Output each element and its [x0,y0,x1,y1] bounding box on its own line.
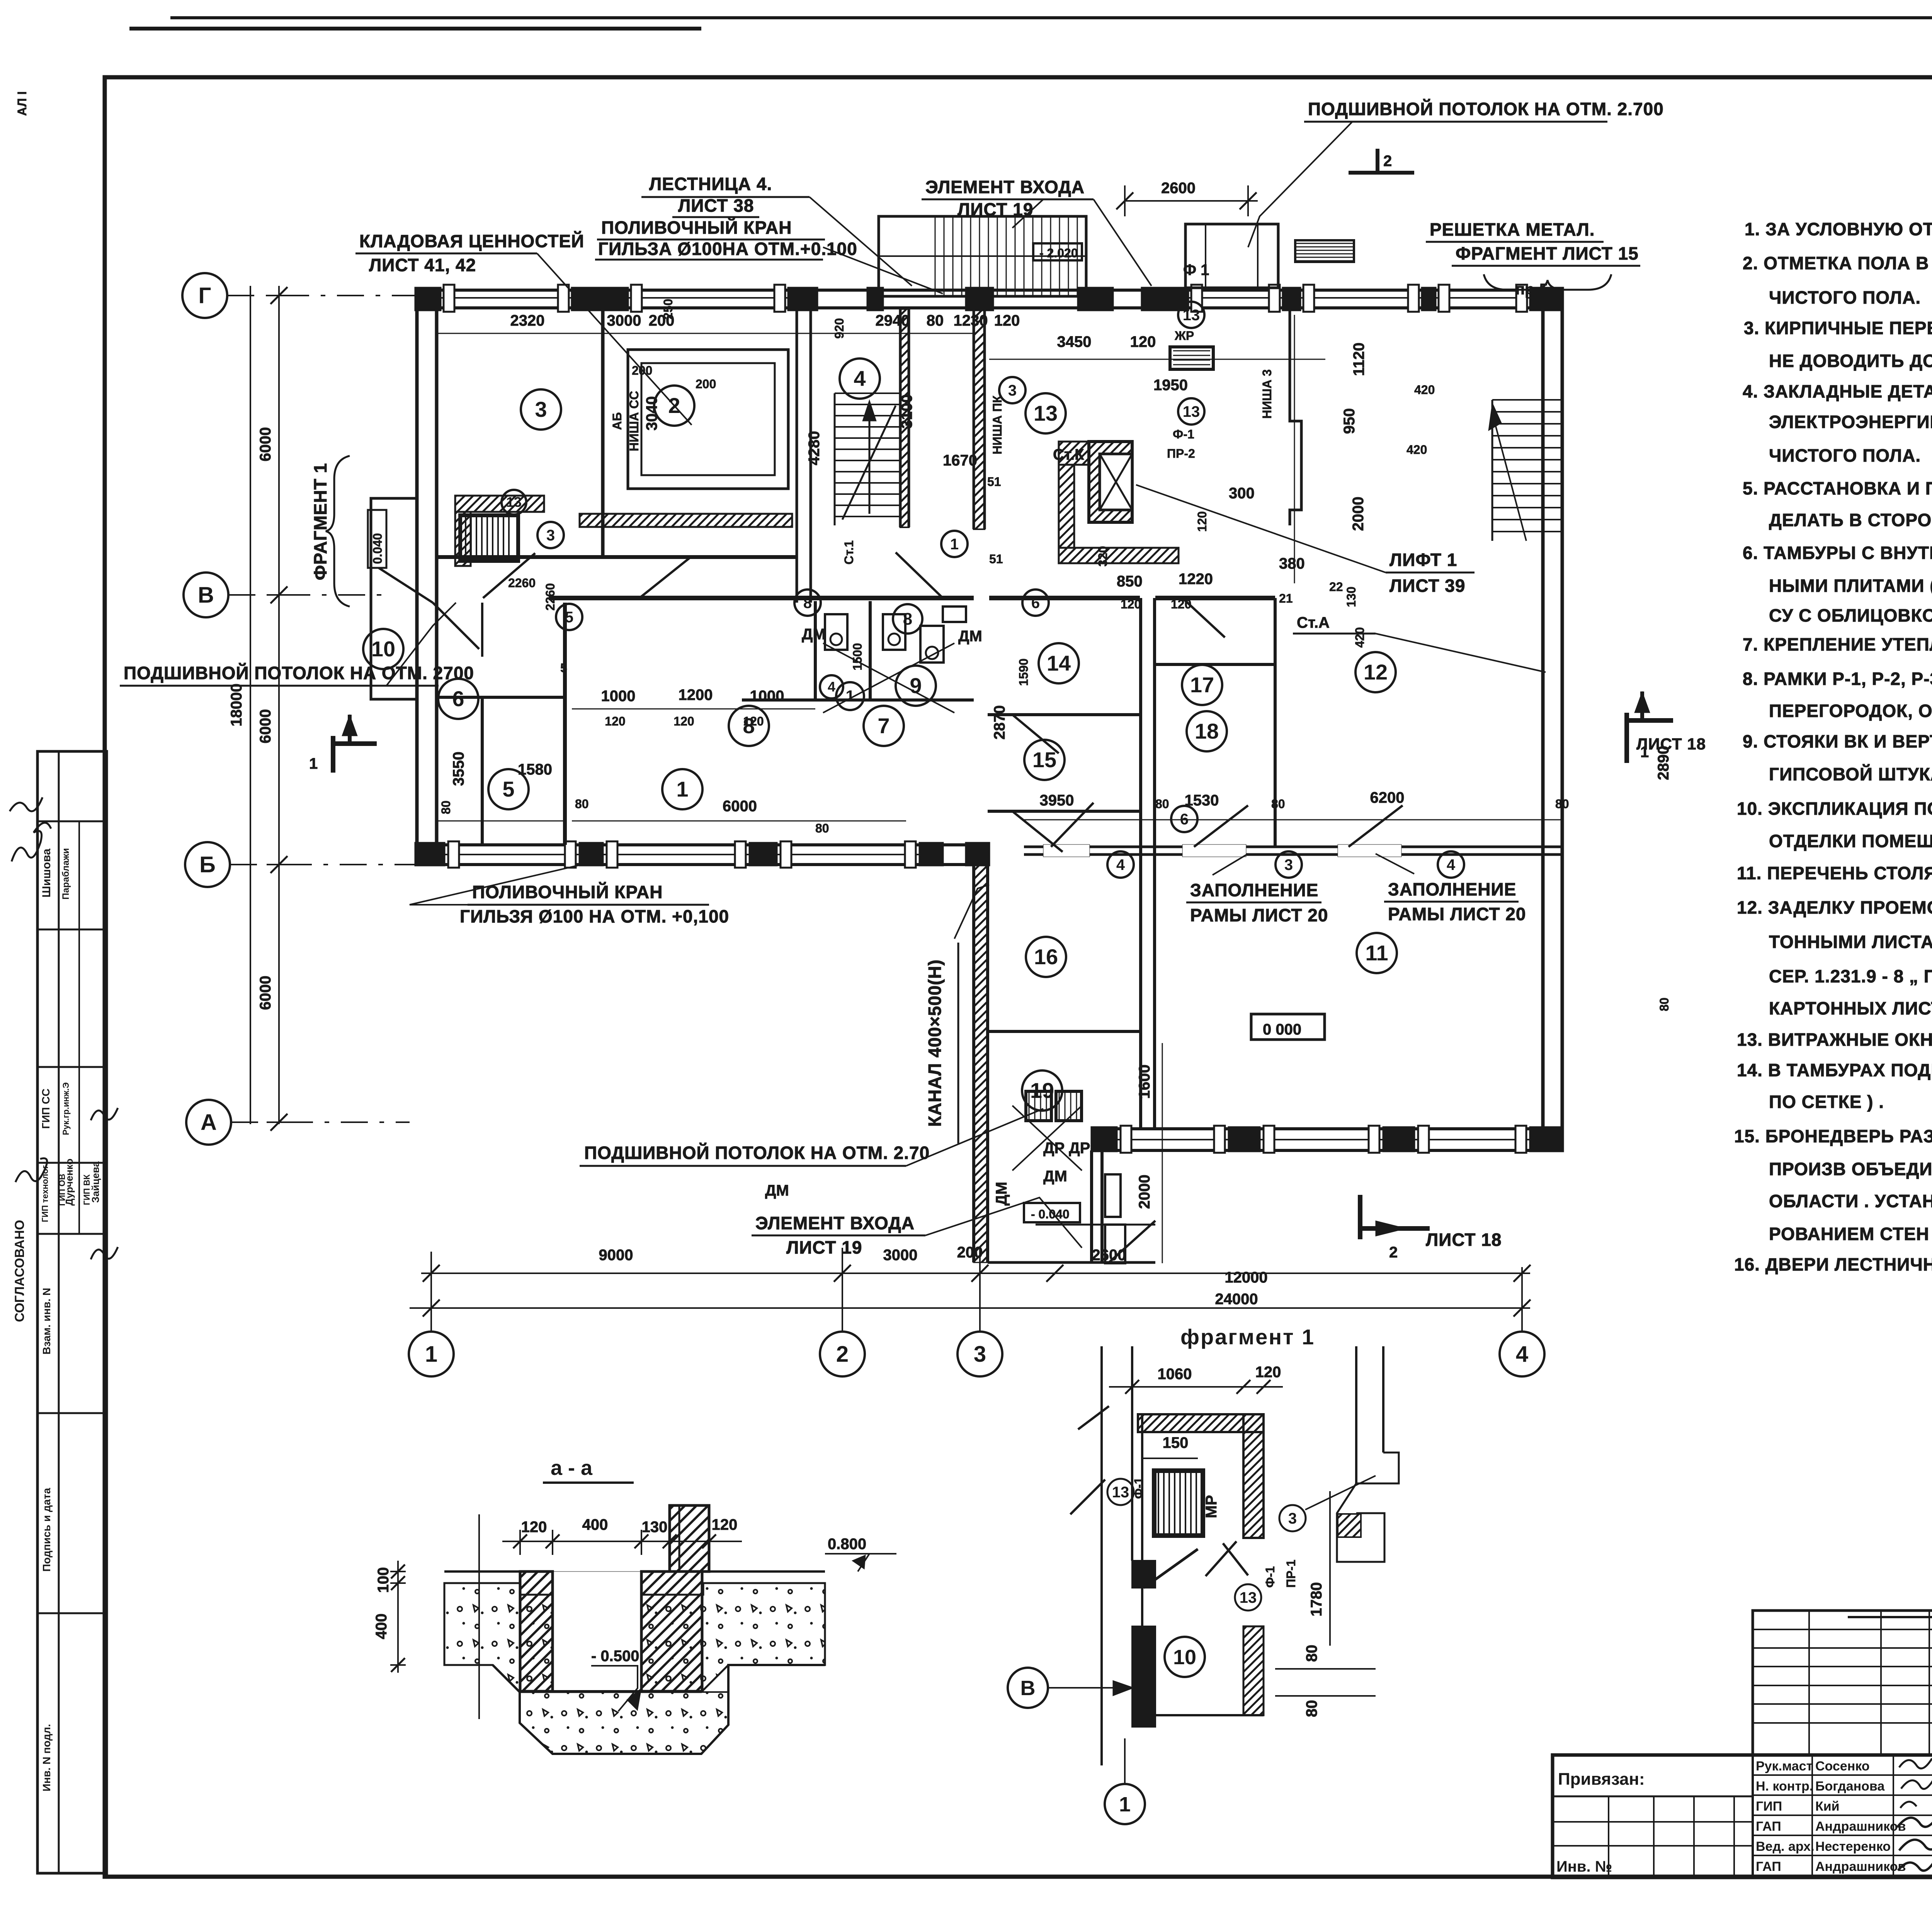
svg-text:51: 51 [989,552,1003,566]
svg-text:1: 1 [950,536,959,553]
svg-text:6000: 6000 [257,427,274,462]
svg-text:рамы лист 20: рамы лист 20 [1388,904,1526,924]
left vertical dimension chains [278,286,280,1124]
top wall piers [415,288,440,310]
svg-text:рованием стен кладовой: рованием стен кладовой ценностей . [1769,1224,1932,1244]
svg-text:8: 8 [803,595,812,612]
room circle 10 [363,629,403,669]
svg-text:ДР ДР: ДР ДР [1043,1140,1090,1157]
svg-text:сер. 1.231.9 - 8 „ Перегородк: сер. 1.231.9 - 8 „ Перегородки поэлемент… [1769,966,1932,986]
dim line room 12 interior [1294,315,1295,583]
svg-text:80: 80 [815,821,829,835]
fragment left wall double [1100,1346,1103,1765]
svg-text:лист 41, 42: лист 41, 42 [369,255,476,275]
room circle 13 [502,490,526,515]
svg-text:рамы лист 20: рамы лист 20 [1190,905,1328,925]
svg-text:4: 4 [1447,856,1456,873]
svg-text:7: 7 [878,714,889,738]
room circle 19 [1022,1070,1062,1111]
svg-text:гильзя Ø100 на отм. +0,100: гильзя Ø100 на отм. +0,100 [460,906,729,926]
left outer wall outer line [415,288,419,865]
fragment right wall detail [1355,1346,1357,1483]
title block top extension lines [1848,1616,1932,1618]
room circle 3 [537,522,564,548]
svg-text:11. Перечень столярных эле: 11. Перечень столярных элементов на лист… [1737,863,1932,883]
svg-text:3040: 3040 [643,396,660,431]
svg-text:Богданова: Богданова [1815,1779,1885,1794]
svg-text:1: 1 [309,755,318,772]
svg-text:3100: 3100 [898,394,915,429]
svg-text:10: 10 [371,637,395,661]
svg-text:200: 200 [696,377,716,391]
section mark 2 bottom with arrow [1358,1195,1362,1239]
section a-a floor slab lines [444,1570,520,1573]
svg-text:ГИП СС: ГИП СС [40,1089,52,1129]
svg-text:1: 1 [845,687,854,705]
svg-text:3: 3 [1284,856,1293,873]
svg-text:1230: 1230 [954,312,988,329]
room circle 13 [1178,398,1204,425]
left outer wall inner line [435,288,439,865]
svg-text:13: 13 [1034,401,1058,425]
room circle 2 [654,386,694,426]
stair arrow [869,409,871,514]
svg-text:3950: 3950 [1040,792,1074,809]
room1 dim line [572,821,906,822]
svg-text:Дурченко: Дурченко [63,1159,75,1206]
wc fixtures [825,614,847,650]
svg-text:6000: 6000 [257,976,274,1010]
second entrance box right top [1185,224,1278,288]
svg-text:420: 420 [1406,443,1427,457]
svg-text:ДМ: ДМ [802,626,826,643]
svg-text:АБ: АБ [610,412,624,430]
room circle 11 [1357,933,1397,973]
svg-text:120: 120 [605,714,625,728]
svg-text:Инв. №: Инв. № [1556,1858,1612,1875]
svg-text:области . Устанавливается: области . Устанавливается в проектное по… [1769,1191,1932,1211]
DR grilles bottom tambour [1026,1091,1051,1121]
room circle 3 [1276,851,1302,878]
svg-text:Сосенко: Сосенко [1815,1759,1870,1774]
room circle 3 [999,377,1026,403]
room circle 1 [836,682,864,710]
svg-text:250: 250 [661,299,675,319]
bottom axis stems [430,1252,432,1332]
elevation box -0.040 rotated left [368,510,386,568]
svg-text:заполнение: заполнение [1388,879,1516,899]
lift lobby hatched walls [1059,442,1089,465]
room circle 4 [840,358,880,399]
svg-text:Рук.маст: Рук.маст [1756,1759,1813,1774]
svg-text:5: 5 [502,777,514,801]
lift shaft [1089,442,1132,522]
svg-text:6: 6 [1180,811,1189,828]
svg-text:420: 420 [1353,627,1367,647]
svg-text:14. В тамбурах подшивные: 14. В тамбурах подшивные потолки на отм.… [1737,1060,1932,1080]
svg-text:Инв. N подл.: Инв. N подл. [41,1724,53,1792]
fragment door leaves [1078,1406,1109,1429]
svg-text:80: 80 [1303,1645,1320,1662]
svg-text:4: 4 [1116,856,1125,873]
wall under room 12 y2197 [1024,846,1563,848]
section mark 1 right with arrow [1624,713,1629,763]
fragment room circle 10 [1165,1637,1205,1677]
trench right wall hatched [641,1572,702,1691]
partitions in stem rooms 14/15/16/19 [988,713,1141,716]
room circle 6 [1171,806,1197,832]
room circle 13 [1178,302,1204,328]
room circle 4 [1107,851,1134,878]
svg-text:Ст.1: Ст.1 [842,540,856,565]
svg-text:перегородок, огрунтовать за: перегородок, огрунтовать за 2 раза и окр… [1769,701,1932,721]
svg-text:4: 4 [828,679,835,695]
svg-text:15: 15 [1032,748,1056,772]
svg-text:9: 9 [910,673,922,698]
svg-text:8: 8 [743,714,755,738]
fragment circles 13 [1107,1479,1134,1505]
svg-text:5: 5 [565,609,573,626]
svg-text:гипсовой штукатуркой по дере: гипсовой штукатуркой по деревянному карк… [1769,764,1932,784]
niche3 jog wall [1290,309,1301,525]
svg-text:кладовая ценностей: кладовая ценностей [359,231,584,251]
svg-text:2320: 2320 [510,312,545,329]
svg-text:2940: 2940 [876,312,910,329]
svg-text:24000: 24000 [1215,1291,1258,1308]
svg-text:5: 5 [560,661,567,675]
svg-text:НИША СС: НИША СС [627,391,641,451]
svg-text:Вед. арх.: Вед. арх. [1756,1839,1815,1854]
svg-text:пр-5: пр-5 [1515,281,1548,298]
svg-text:- 0.500: - 0.500 [591,1648,639,1665]
svg-text:80: 80 [575,797,589,811]
corridor wall top y1548 [549,596,974,600]
room circle 7 [864,706,904,746]
section mark 1 left [331,736,335,773]
svg-text:фрагмент 1: фрагмент 1 [310,463,330,580]
svg-text:ЖР: ЖР [1174,329,1194,343]
rooms 5/6 partitions [437,696,565,699]
elevation box 0.000 room 11 [1251,1014,1325,1040]
partitions rooms 17/18 [1155,663,1275,666]
svg-text:3: 3 [974,1342,986,1367]
svg-text:6000: 6000 [723,798,757,815]
svg-text:лист 18: лист 18 [1426,1230,1502,1250]
room circle 3 [521,389,561,430]
svg-text:120: 120 [521,1519,547,1536]
svg-text:0 000: 0 000 [1263,1021,1301,1038]
svg-text:по сетке ) .: по сетке ) . [1769,1092,1884,1112]
wc partitions rooms 7/8 [814,601,817,700]
svg-text:950: 950 [1341,408,1358,434]
svg-text:9000: 9000 [599,1247,633,1264]
svg-text:3450: 3450 [1057,333,1092,350]
svg-text:заполнение: заполнение [1190,880,1318,900]
svg-text:1: 1 [425,1342,437,1367]
svg-text:11: 11 [1365,941,1388,965]
signatures squiggles [1899,1758,1932,1808]
svg-text:поливочный кран: поливочный кран [472,882,663,902]
svg-text:2260: 2260 [543,583,557,610]
svg-text:А: А [201,1110,217,1135]
svg-text:420: 420 [1414,383,1435,397]
svg-text:2: 2 [1389,1244,1398,1261]
svg-text:ПР-1: ПР-1 [1284,1560,1298,1588]
svg-text:НИША ПК: НИША ПК [990,395,1004,454]
svg-text:Ст.К: Ст.К [1053,446,1084,463]
canal stem walls [972,865,975,1262]
wall above hatched [670,1505,709,1572]
room circle 13 [1026,393,1066,433]
svg-text:6. Тамбуры с внутренней ст: 6. Тамбуры с внутренней стороны утеплить… [1743,543,1932,563]
svg-text:80: 80 [1657,997,1671,1011]
top entrance stair box [879,216,1086,296]
room circle 12 [1355,652,1396,692]
svg-text:отделки помещений на лист: отделки помещений на листах 3, 4, 5. [1769,831,1932,851]
room circle 4 [1438,851,1464,878]
svg-text:Ф 1: Ф 1 [1183,262,1209,279]
concrete floor band stipple [444,1583,825,1692]
section top dim line [502,1541,742,1542]
svg-text:1590: 1590 [1017,658,1031,686]
niche walls room 2 [628,350,788,489]
svg-text:Кий: Кий [1815,1799,1840,1814]
svg-text:Ф-1: Ф-1 [1263,1566,1277,1588]
svg-text:1120: 1120 [1350,343,1367,376]
svg-text:120: 120 [1130,333,1156,350]
svg-text:2870: 2870 [991,705,1008,740]
svg-text:13: 13 [1183,403,1200,420]
interior partition rooms 3|2 [601,309,605,558]
svg-text:13: 13 [1112,1484,1129,1501]
bottom dimension lines [421,1273,1530,1274]
svg-text:6: 6 [452,686,464,711]
axis circle 1 [409,1332,454,1376]
svg-text:а - а: а - а [551,1456,593,1480]
svg-text:чистого пола.: чистого пола. [1769,445,1921,466]
door gaps white in y2197 wall [1182,844,1246,857]
svg-text:80: 80 [927,312,944,329]
svg-text:элемент входа: элемент входа [755,1213,915,1233]
svg-text:не доводить до плит перекрыт: не доводить до плит перекрытия на 20 мм [1769,351,1932,371]
svg-text:3000: 3000 [883,1247,918,1264]
svg-text:Андрашников: Андрашников [1815,1859,1906,1874]
svg-text:3: 3 [1008,382,1017,399]
fragment dims top [1109,1386,1283,1388]
svg-text:10. Экспликация помещений: 10. Экспликация помещений и их площади д… [1737,799,1932,819]
horizontal axis dash lines [227,295,417,296]
svg-text:В: В [198,583,214,608]
svg-text:лифт 1: лифт 1 [1389,550,1457,570]
svg-text:лист 19: лист 19 [786,1237,862,1257]
svg-text:0.800: 0.800 [828,1536,866,1553]
svg-text:120: 120 [1195,511,1209,532]
svg-text:НИША 3: НИША 3 [1260,369,1274,419]
svg-text:13: 13 [1240,1589,1257,1606]
trench left wall hatched [520,1572,553,1691]
room circle 5 [556,604,582,630]
svg-text:ДМ: ДМ [765,1182,789,1199]
svg-text:1: 1 [1119,1793,1131,1816]
svg-text:3: 3 [546,527,555,544]
left vertical stamp table [37,751,107,1873]
svg-text:2: 2 [1383,153,1392,170]
axis circle В [184,573,228,617]
DM leader crosses [823,643,954,713]
axis circle Г [182,273,227,318]
axis circle 4 [1500,1332,1544,1376]
svg-text:1220: 1220 [1179,571,1213,588]
room circle 8 [794,590,821,616]
svg-text:3000: 3000 [607,312,641,329]
svg-text:8. Рамки Р-1, Р-2, Р-3 устан: 8. Рамки Р-1, Р-2, Р-3 устанавливать одн… [1743,669,1932,689]
svg-text:элемент входа: элемент входа [925,177,1085,197]
right outer wall outer line [1541,288,1545,1151]
svg-text:Зайцева: Зайцева [90,1161,101,1203]
svg-text:130: 130 [1344,586,1358,607]
room circle 8 [893,604,922,634]
top outer wall outer line [415,289,1563,292]
svg-text:120: 120 [1121,597,1141,611]
fragment dims 80 80 [1275,1668,1376,1670]
svg-text:1670: 1670 [943,452,977,469]
svg-text:300: 300 [1229,485,1255,502]
svg-text:су с облицовкой по серии: су с облицовкой по серии 1. 231.9 - 8 вы… [1769,605,1932,625]
svg-text:Рук.гр.инж.Э: Рук.гр.инж.Э [61,1082,71,1135]
svg-text:4: 4 [1516,1342,1528,1367]
privyazan block left [1551,1755,1554,1877]
svg-text:10: 10 [1173,1646,1196,1669]
trench pit concrete [493,1665,825,1754]
svg-text:1. За условную отметку 0.000: 1. За условную отметку 0.000 принята отм… [1745,219,1932,239]
svg-text:13: 13 [506,494,522,510]
svg-text:4280: 4280 [806,431,823,466]
interior partition rooms 5|1 [563,603,567,845]
right outer wall inner line [1561,288,1564,1151]
room circle 1 [941,531,968,557]
svg-text:2: 2 [668,393,680,418]
room circle 6 [438,679,478,719]
svg-text:1200: 1200 [679,686,713,703]
fragment bottom wall [1142,1714,1264,1716]
room circle 4 [820,675,843,698]
svg-text:5. Расстановка и привязка т: 5. Расстановка и привязка трапов дана на… [1743,478,1932,498]
svg-text:решетка метал.: решетка метал. [1430,219,1595,240]
room circle 18 [1187,711,1227,751]
svg-text:0.040: 0.040 [371,533,384,564]
svg-text:1600: 1600 [1136,1065,1153,1099]
room circle 9 [896,666,936,706]
svg-text:фрагмент 1: фрагмент 1 [1180,1325,1315,1349]
svg-text:Н. контр.: Н. контр. [1756,1779,1813,1794]
svg-text:1000: 1000 [601,688,636,705]
top outer wall inner line [415,306,1563,309]
svg-text:Ст.А: Ст.А [1297,614,1330,631]
wall under rooms 3/2 y1440 [437,555,797,559]
svg-text:Б: Б [199,852,216,877]
stair diagonal arrow [842,406,896,520]
svg-text:14: 14 [1047,651,1071,675]
svg-text:2000: 2000 [1136,1175,1153,1209]
svg-text:тонными листами ( ГКЛ ): тонными листами ( ГКЛ ) на деревянном ка… [1769,932,1932,952]
svg-text:19: 19 [1030,1078,1054,1103]
wall axis3 double [973,303,975,529]
svg-text:В: В [1020,1677,1036,1700]
title block upper small table [1753,1611,1932,1755]
svg-text:4. Закладные детали в полу: 4. Закладные детали в полу для крепления… [1743,381,1932,401]
svg-text:3: 3 [1288,1510,1297,1527]
svg-text:Шишова: Шишова [40,848,53,897]
canal hatch [974,865,988,1262]
svg-text:МР: МР [1203,1495,1220,1518]
svg-text:фрагмент лист 15: фрагмент лист 15 [1456,243,1639,263]
fragment axis circle V [1008,1668,1048,1708]
svg-text:920: 920 [832,318,846,338]
svg-text:320: 320 [1096,546,1110,566]
svg-text:произв объединение „ Прикарп: произв объединение „ Прикарпатье" г. Кол… [1769,1159,1932,1179]
svg-text:лестница 4.: лестница 4. [649,174,772,194]
room circle 5 [488,769,529,809]
svg-text:400: 400 [582,1516,608,1533]
svg-text:электроэнергии и канализации: электроэнергии и канализации к оборудова… [1769,412,1932,432]
svg-text:АЛ I: АЛ I [15,91,29,116]
svg-text:СОГЛАСОВАНО: СОГЛАСОВАНО [12,1220,27,1322]
entrance stair treads vertical [935,216,936,296]
svg-text:подшивной потолок на отм. 2.: подшивной потолок на отм. 2.70 [584,1143,930,1163]
thick wall rooms 2|4 [796,309,798,603]
svg-text:ГАП: ГАП [1756,1819,1781,1834]
svg-text:120: 120 [673,714,694,728]
svg-text:Ф-1: Ф-1 [1173,427,1194,441]
svg-text:ДМ: ДМ [1043,1168,1067,1185]
svg-text:делать в сторону трапов.: делать в сторону трапов. [1769,510,1932,530]
svg-text:6000: 6000 [257,709,274,744]
metal grille box top right [1295,240,1354,262]
bottom outer wall room 11 with windows [1092,1127,1563,1130]
fragment axis circle 1 [1105,1784,1145,1824]
svg-text:4: 4 [854,366,866,391]
room circle 17 [1182,665,1222,705]
svg-text:120: 120 [712,1516,738,1533]
elevation box -0.040 bottom [1024,1203,1080,1222]
svg-text:18: 18 [1195,719,1219,743]
svg-text:Ф-1: Ф-1 [1132,1477,1146,1499]
svg-text:850: 850 [1117,573,1143,590]
svg-text:Нестеренко: Нестеренко [1815,1839,1891,1854]
stair left flight treads [835,392,900,394]
svg-text:поливочный кран: поливочный кран [601,217,792,238]
svg-text:1500: 1500 [850,643,864,670]
margin signatures [12,823,51,861]
fragment grate MR [1154,1471,1203,1536]
svg-text:Параблажи: Параблажи [61,848,71,899]
svg-text:3550: 3550 [450,752,467,786]
axis circle 3 [957,1332,1002,1376]
svg-text:2600: 2600 [1161,180,1196,197]
svg-text:Привязан:: Привязан: [1558,1770,1645,1789]
svg-text:2000: 2000 [1350,497,1367,531]
svg-text:100: 100 [375,1567,392,1593]
axis circle А [186,1100,231,1145]
svg-text:6200: 6200 [1370,789,1405,806]
svg-text:ГИП: ГИП [1756,1799,1782,1814]
svg-text:7. Крепление утеплителя вест: 7. Крепление утеплителя вести в соответс… [1743,634,1932,654]
svg-text:чистого пола.: чистого пола. [1769,287,1921,308]
svg-text:- 2.020: - 2.020 [1039,246,1078,260]
svg-text:120: 120 [1171,597,1191,611]
svg-text:ПР-2: ПР-2 [1167,447,1195,460]
svg-text:лист 38: лист 38 [678,195,754,216]
